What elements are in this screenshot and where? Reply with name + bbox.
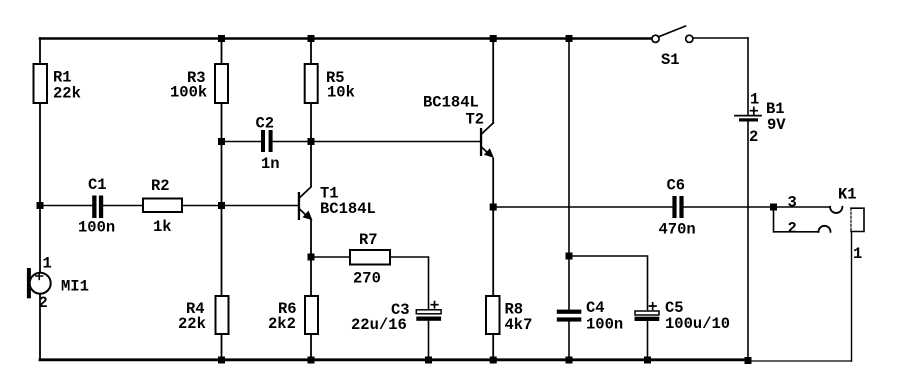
wire R3 to R4 column bbox=[221, 103, 223, 296]
wire T2 collector to rail bbox=[492, 38, 494, 123]
capacitor C6 bbox=[672, 196, 683, 218]
wire R7 to C3 corner bbox=[390, 257, 429, 310]
resistor R7 bbox=[350, 250, 390, 265]
transistor T1 bbox=[298, 187, 313, 220]
resistor R3 bbox=[215, 64, 228, 103]
wire bottom right thin segment bbox=[748, 360, 852, 362]
microphone MI1 bbox=[27, 268, 51, 298]
wire C5 to ground bbox=[647, 321, 649, 360]
svg-text:9V: 9V bbox=[767, 116, 786, 134]
switch S1 bbox=[652, 26, 693, 42]
svg-text:BC184L: BC184L bbox=[423, 94, 479, 112]
svg-text:100n: 100n bbox=[78, 219, 115, 237]
wire battery column lower to ground bbox=[747, 122, 749, 362]
wire bottom ground rail bbox=[40, 358, 748, 361]
wire left column middle (R1 to MI1) bbox=[39, 103, 41, 273]
capacitor C3 (electrolytic) bbox=[416, 302, 441, 321]
resistor R5 bbox=[305, 64, 318, 103]
label R1 value bbox=[53, 69, 81, 103]
wire R3 column top bbox=[221, 38, 223, 64]
label R8 value bbox=[505, 301, 533, 335]
wire R4 to ground bbox=[221, 334, 223, 360]
connector K1 jack bbox=[774, 207, 865, 232]
resistor R1 bbox=[34, 64, 48, 103]
wire C4 node to C5 bbox=[569, 256, 648, 310]
svg-text:T2: T2 bbox=[466, 111, 485, 129]
label C3 value bbox=[351, 301, 410, 334]
transistor T2 bbox=[480, 123, 494, 158]
svg-text:K1: K1 bbox=[838, 186, 857, 204]
wire decoupling column rail to C4 bbox=[568, 38, 570, 310]
svg-text:22k: 22k bbox=[178, 315, 206, 333]
node dots bbox=[37, 35, 778, 364]
resistor R6 bbox=[305, 296, 318, 334]
capacitor C1 bbox=[92, 196, 103, 219]
wire output node to C6 bbox=[493, 206, 672, 208]
label R2 value bbox=[151, 177, 172, 236]
wire left column top (rail to R1) bbox=[39, 38, 41, 64]
label C5 value bbox=[665, 299, 730, 333]
svg-text:100n: 100n bbox=[586, 316, 623, 334]
wire R5 to T1 collector node bbox=[310, 103, 312, 186]
wire T1 collector node to T2 base bbox=[311, 141, 480, 143]
wire T1 emitter node to R7 bbox=[311, 256, 350, 258]
svg-text:100k: 100k bbox=[170, 84, 207, 102]
svg-text:22k: 22k bbox=[53, 85, 81, 103]
svg-text:2: 2 bbox=[749, 128, 758, 146]
svg-text:22u/16: 22u/16 bbox=[351, 316, 407, 334]
label K1 with pins bbox=[788, 186, 863, 264]
svg-text:2: 2 bbox=[39, 294, 48, 312]
svg-text:1k: 1k bbox=[153, 218, 172, 236]
svg-text:MI1: MI1 bbox=[61, 278, 89, 296]
capacitor C2 bbox=[261, 130, 273, 152]
wire battery column upper bbox=[747, 38, 749, 115]
svg-text:R2: R2 bbox=[151, 177, 170, 195]
wire C4 to ground bbox=[568, 322, 570, 361]
wire T2 emitter down through output node to R8 bbox=[492, 159, 494, 297]
capacitor C4 bbox=[557, 310, 582, 322]
svg-text:1: 1 bbox=[43, 255, 52, 273]
wire R5 column top bbox=[310, 38, 312, 64]
svg-text:1: 1 bbox=[853, 245, 862, 263]
wire R8 to ground bbox=[492, 334, 494, 360]
svg-text:2k2: 2k2 bbox=[268, 315, 296, 333]
wire C6 to K1 node bbox=[684, 206, 774, 208]
wire signal row node A to C1 bbox=[40, 205, 92, 207]
svg-text:C4: C4 bbox=[586, 299, 605, 317]
svg-text:BC184L: BC184L bbox=[320, 200, 376, 218]
svg-text:3: 3 bbox=[788, 194, 797, 212]
svg-text:S1: S1 bbox=[661, 51, 680, 69]
label S1 bbox=[661, 51, 680, 69]
label MI1 with pins bbox=[39, 255, 89, 313]
label R6 value bbox=[268, 300, 297, 333]
label T1 type bbox=[320, 185, 376, 219]
svg-text:10k: 10k bbox=[327, 84, 355, 102]
svg-text:C6: C6 bbox=[667, 177, 686, 195]
label C1 value bbox=[78, 176, 115, 237]
label R4 value bbox=[178, 300, 206, 333]
wire C1 to R2 bbox=[103, 205, 143, 207]
svg-text:100u/10: 100u/10 bbox=[665, 315, 730, 333]
label R5 value bbox=[326, 69, 355, 102]
svg-text:470n: 470n bbox=[659, 221, 696, 239]
label C4 value bbox=[586, 299, 623, 334]
label T2 type bbox=[423, 94, 484, 129]
svg-text:C1: C1 bbox=[88, 176, 107, 194]
label B1 with pins bbox=[749, 91, 786, 147]
svg-text:270: 270 bbox=[353, 270, 381, 288]
wire K1 pin1 vertical bbox=[851, 232, 853, 362]
wire C3 to ground bbox=[428, 321, 430, 360]
resistor R8 bbox=[486, 296, 500, 334]
svg-text:1: 1 bbox=[750, 91, 759, 109]
label R7 value bbox=[353, 231, 381, 288]
capacitor C5 (electrolytic) bbox=[635, 303, 660, 321]
svg-text:C2: C2 bbox=[256, 115, 275, 133]
wire C2 right lead bbox=[273, 141, 311, 143]
wire R6 to ground bbox=[310, 334, 312, 360]
label C2 value bbox=[256, 115, 280, 174]
label C6 value bbox=[659, 177, 696, 239]
wire top supply rail bbox=[40, 37, 652, 40]
wire R2 to T1 base bbox=[182, 205, 298, 207]
resistor R2 bbox=[143, 199, 182, 213]
wire left column bottom (MI1 to ground) bbox=[39, 294, 41, 360]
resistor R4 bbox=[216, 296, 229, 334]
svg-text:2: 2 bbox=[788, 220, 797, 238]
svg-text:R7: R7 bbox=[359, 231, 378, 249]
svg-text:4k7: 4k7 bbox=[505, 316, 533, 334]
svg-text:1n: 1n bbox=[261, 155, 280, 173]
label R3 value bbox=[170, 69, 207, 102]
wire C2 left lead bbox=[222, 141, 262, 143]
battery B1 bbox=[735, 107, 761, 121]
wire switch to battery top bbox=[694, 37, 749, 39]
wire T1 emitter down to node bbox=[310, 221, 312, 297]
